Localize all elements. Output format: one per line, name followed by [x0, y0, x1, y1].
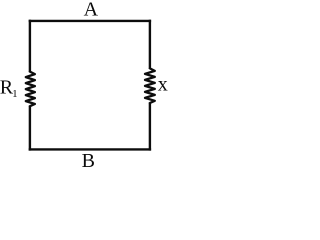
svg-text:A: A [84, 0, 99, 21]
svg-text:1: 1 [12, 88, 18, 100]
resistor x (right branch zigzag) [145, 68, 155, 103]
wire: right side lower segment [149, 102, 151, 150]
svg-text:B: B [82, 150, 95, 172]
wire: right side upper segment [149, 20, 151, 69]
svg-text:x: x [158, 74, 168, 96]
wire: bottom side of loop (node B) [29, 148, 151, 150]
wire: left side upper segment [29, 20, 31, 72]
wire: left side lower segment [29, 106, 31, 151]
wire: top side of loop (node A) [29, 20, 151, 22]
resistor R1 (left branch zigzag) [26, 72, 35, 107]
